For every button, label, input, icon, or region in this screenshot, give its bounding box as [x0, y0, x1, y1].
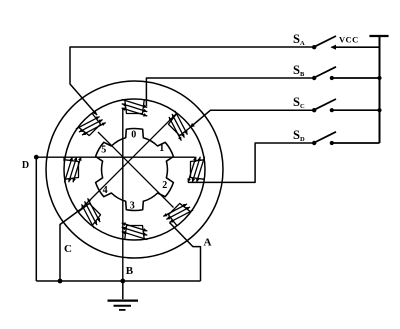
svg-text:B: B	[126, 265, 134, 277]
svg-text:VCC: VCC	[339, 35, 359, 45]
svg-text:0: 0	[131, 130, 136, 141]
svg-text:C: C	[64, 243, 72, 255]
svg-text:2: 2	[162, 180, 167, 191]
svg-text:5: 5	[101, 144, 106, 155]
svg-text:3: 3	[130, 200, 135, 211]
svg-text:D: D	[22, 160, 29, 171]
svg-text:1: 1	[159, 143, 164, 154]
svg-text:A: A	[204, 237, 212, 249]
